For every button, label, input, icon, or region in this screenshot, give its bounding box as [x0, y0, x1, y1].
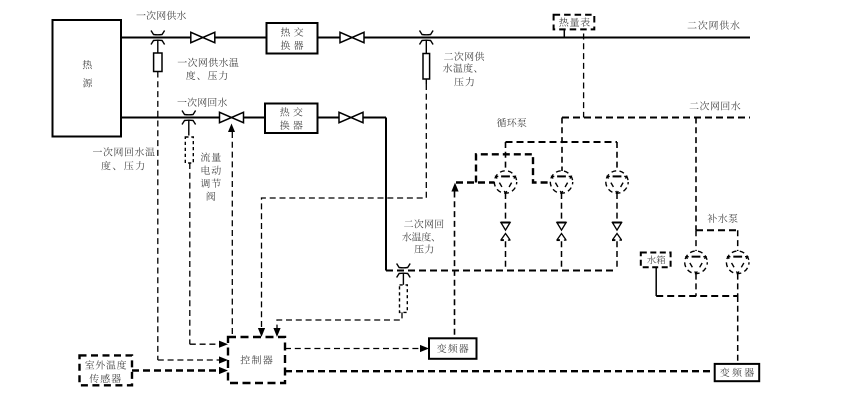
label 传感器 — [89, 374, 120, 383]
label 水箱 — [647, 256, 665, 265]
wire pump3 suction — [616, 142, 618, 171]
label 二次网回 — [404, 219, 443, 228]
wire S3 stem — [425, 41, 427, 54]
arrow into VFD1 — [420, 345, 429, 352]
valve V1 — [191, 32, 215, 42]
label 二次网供 — [444, 52, 484, 61]
control valve V3 actuator arrow — [228, 124, 235, 133]
wire S4 stem — [402, 274, 404, 285]
controller box — [228, 337, 285, 383]
wire S2 signal drop — [189, 163, 191, 344]
heat exchanger U1 box — [267, 23, 318, 54]
wire VFD1 signal riser — [454, 192, 456, 339]
label 阀 — [207, 192, 215, 201]
wire tank header — [656, 295, 738, 297]
label 一次网回水温 — [93, 147, 155, 156]
wire controller to VFD2 — [285, 370, 715, 372]
label 二次网供水 — [688, 20, 740, 29]
wire makeup pump2 lower — [737, 274, 739, 296]
wire pump2 discharge lower — [561, 241, 563, 270]
label 水温度、(r) — [402, 232, 434, 241]
label 变频器 U4 — [720, 368, 754, 377]
label U2 热交 — [280, 107, 303, 116]
check valve CV3 — [612, 223, 622, 241]
VFD U3 box — [429, 338, 477, 359]
wire secondary return riser — [385, 118, 387, 271]
wire pump1 discharge lower — [505, 241, 507, 270]
heat exchanger U2 box — [265, 104, 318, 134]
arrow into controller top (S4) — [273, 328, 280, 337]
wire S2 signal horiz — [190, 343, 219, 345]
label U1 换器 — [281, 41, 304, 50]
wire controller to VFD1 — [285, 348, 419, 350]
wire pump3 discharge — [616, 193, 618, 222]
wire pump2 motor signal — [476, 154, 550, 182]
label 循环泵 — [497, 118, 527, 127]
sensor S3 element — [423, 54, 430, 80]
arrow into controller (S2) — [219, 341, 228, 348]
arrow into controller (outdoor) — [219, 367, 228, 374]
wire S1 signal horiz — [158, 359, 219, 361]
label heat source 热 — [83, 60, 92, 69]
circulation pump P1 — [494, 171, 516, 193]
wire outdoor sensor signal — [132, 369, 219, 371]
label 水温度、(s) — [443, 63, 476, 72]
makeup pump P4 — [685, 251, 708, 274]
wire secondary return line — [562, 117, 750, 119]
wire primary return pipe — [121, 117, 386, 119]
wire meter tap — [563, 29, 565, 37]
label 度、压力 (2) — [101, 161, 144, 170]
check valve CV1 — [501, 223, 511, 241]
wire S2 stem — [188, 121, 190, 136]
label 室外温度 — [85, 360, 126, 369]
wire S4 signal route — [277, 312, 402, 328]
label 一次网供水温 — [178, 58, 239, 67]
sensor well S1 — [151, 31, 165, 45]
makeup pump P5 — [726, 251, 749, 274]
wire pump2 discharge — [561, 193, 563, 222]
heat source box — [53, 20, 122, 137]
wire pump suction header — [506, 141, 618, 143]
wire makeup riser — [695, 118, 697, 231]
wire control valve signal — [231, 132, 233, 336]
wire pump1 suction — [505, 142, 507, 171]
wire makeup pump2 suction — [737, 230, 739, 251]
label 一次网供水 — [136, 11, 186, 20]
wire pump1 motor signal — [456, 181, 494, 183]
wire pump suction drop — [561, 118, 563, 172]
wire S1 signal drop — [157, 72, 159, 361]
valve V4 — [339, 112, 363, 122]
control valve V3 — [220, 112, 244, 122]
label 调节 — [201, 179, 221, 188]
sensor well S2 — [182, 111, 196, 125]
wire tank outlet — [655, 267, 657, 296]
wire pump discharge header — [386, 270, 617, 272]
VFD U4 box — [715, 364, 760, 381]
sensor S2 element (dashed) — [185, 137, 193, 163]
valve V2 — [340, 32, 364, 42]
wire S3 signal route — [262, 84, 427, 328]
label 二次网回水 — [690, 101, 741, 110]
label 压力 (r) — [414, 244, 433, 253]
label 压力 (s) — [454, 77, 474, 86]
wire primary supply pipe — [121, 37, 750, 39]
check valve CV2 — [557, 223, 567, 241]
label 补水泵 — [708, 214, 738, 223]
wire pump3 discharge lower — [616, 241, 618, 270]
sensor well S4 — [397, 264, 411, 278]
sensor well S3 — [420, 31, 434, 45]
label 度、压力 (1) — [186, 71, 227, 80]
wire makeup pump1 lower — [695, 274, 697, 296]
sensor S4 element (dashed) — [400, 285, 408, 313]
arrow into controller top (S3) — [258, 328, 265, 337]
arrow into controller (S1) — [219, 356, 228, 363]
wire meter flow line — [583, 34, 585, 118]
heat meter box — [554, 15, 595, 30]
wire makeup header — [696, 229, 738, 231]
outdoor temp sensor box — [80, 355, 133, 385]
circulation pump P3 — [606, 171, 628, 193]
sensor S1 element — [154, 53, 162, 72]
label U2 换器 — [280, 120, 303, 129]
arrow pump speed signal — [451, 183, 458, 192]
label 一次网回水 — [177, 98, 227, 107]
label heat source 源 — [83, 78, 92, 87]
wire S1 stem — [157, 41, 159, 54]
wire pump1 discharge — [505, 193, 507, 222]
label 控制器 — [240, 355, 272, 364]
wire S3 tick — [425, 79, 427, 84]
label 电动 — [202, 166, 221, 175]
label 流量 — [201, 152, 221, 161]
water tank box — [641, 253, 671, 268]
label U1 热交 — [281, 27, 304, 36]
label 热量表 — [559, 17, 590, 26]
wire makeup pump1 suction — [695, 230, 697, 251]
label 变频器 U3 — [437, 344, 468, 353]
circulation pump P2 — [550, 171, 572, 193]
wire makeup VFD drop — [737, 296, 739, 364]
